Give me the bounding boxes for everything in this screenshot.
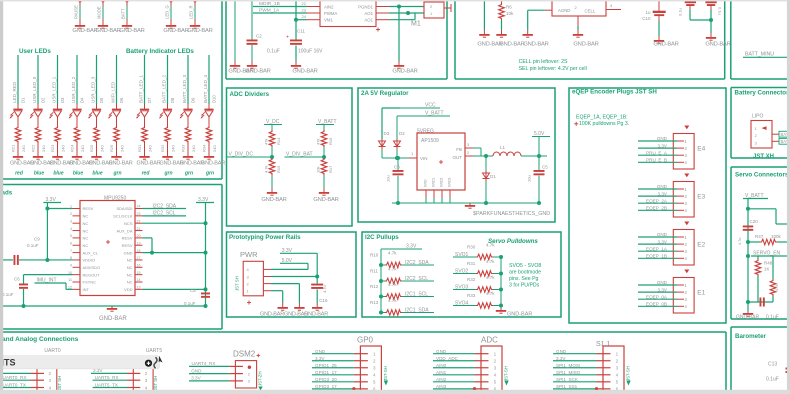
resistor R11 4.7k	[370, 267, 402, 284]
svg-text:C20: C20	[750, 219, 759, 224]
svg-text:I2C2_SCL: I2C2_SCL	[405, 276, 428, 282]
svg-text:EQEP_2A: EQEP_2A	[646, 198, 668, 203]
resistor R12 4.7k	[370, 282, 402, 299]
svg-text:21: 21	[137, 227, 141, 231]
svg-text:3.3V: 3.3V	[191, 376, 201, 381]
resistor R33 240	[181, 126, 197, 152]
svg-text:R11: R11	[370, 269, 378, 274]
svg-text:SDA/SDI: SDA/SDI	[116, 206, 132, 211]
svg-text:FSYNC: FSYNC	[83, 280, 97, 285]
resistor R25 240	[89, 126, 105, 152]
pin stub UART0 2	[31, 372, 45, 374]
svg-text:GPIO3_20: GPIO3_20	[315, 377, 337, 382]
net label I2C1_SCL	[402, 296, 434, 298]
section frame Motor Driver	[225, 0, 227, 79]
svg-text:GND-BAR: GND-BAR	[187, 28, 212, 34]
svg-text:240: 240	[41, 145, 46, 152]
LED D5	[88, 109, 101, 118]
svg-text:5VREG: 5VREG	[417, 129, 434, 135]
svg-text:E2: E2	[697, 242, 705, 249]
overlay cursor	[159, 356, 163, 363]
svg-text:D7: D7	[147, 97, 152, 103]
pin stub ADC 3	[475, 367, 489, 369]
wire LED to resistor R22	[37, 117, 39, 126]
svg-text:FB: FB	[456, 147, 462, 152]
resistor R22 240	[31, 126, 47, 152]
svg-text:D8: D8	[170, 97, 175, 103]
svg-text:grn: grn	[184, 170, 193, 176]
pin stub LIPO 2	[772, 133, 779, 135]
wire pin1 to ground	[271, 290, 283, 292]
svg-text:0.1u: 0.1u	[718, 7, 723, 15]
svg-text:JST-SH: JST-SH	[626, 366, 631, 381]
IMU pin 7 AUX_CL	[70, 249, 99, 256]
svg-text:SPI1_SS1: SPI1_SS1	[556, 384, 578, 389]
pin stubs AP1509 bottom	[425, 190, 427, 198]
wire LED to resistor R31	[144, 117, 146, 126]
pin stub GP0 6	[354, 388, 368, 390]
svg-text:NC: NC	[127, 265, 133, 270]
wire joining C14 C15	[689, 10, 691, 21]
svg-text:SEL pin leftover: 4.2V per cel: SEL pin leftover: 4.2V per cell	[519, 66, 587, 72]
svg-text:CELL: CELL	[585, 9, 596, 14]
svg-text:GND: GND	[436, 349, 447, 354]
LED column WIFI_LED	[111, 55, 125, 109]
svg-text:I2C1_SCL: I2C1_SCL	[405, 292, 428, 298]
svg-text:EQEP_0B: EQEP_0B	[646, 302, 667, 307]
svg-text:D9: D9	[191, 97, 196, 103]
wire pin3 to 3.3V	[271, 276, 317, 278]
svg-text:UART5: UART5	[146, 348, 163, 354]
svg-text:4.7k: 4.7k	[388, 298, 397, 303]
ground GND-BAR USR_LED_0	[30, 152, 54, 167]
svg-text:R23: R23	[50, 144, 55, 152]
net label 3.3V E4	[638, 143, 684, 148]
svg-text:2: 2	[70, 212, 72, 216]
svg-text:22: 22	[137, 219, 141, 223]
svg-text:19: 19	[137, 241, 141, 245]
ground GND-BAR C16	[304, 303, 328, 318]
pin stub ADC 4	[475, 374, 489, 376]
connector UART5 JST	[133, 358, 153, 394]
IMU IC MPU9250	[80, 196, 135, 296]
section frame IMU	[0, 184, 222, 186]
net label GND DSM2	[189, 373, 229, 375]
net flag BAT+	[779, 131, 790, 137]
svg-text:M1: M1	[411, 21, 421, 28]
connector DSM2 JST ZH	[235, 361, 256, 388]
section frame Barometer	[731, 326, 790, 328]
wire resistor R33 to ground	[187, 143, 189, 152]
wire AO1 to M1	[389, 12, 424, 14]
svg-text:UART4_RX: UART4_RX	[192, 361, 216, 366]
capacitor C2 0.1uF	[247, 34, 280, 55]
svg-text:GND: GND	[424, 179, 428, 187]
wire LED to resistor R23	[57, 117, 59, 126]
svg-text:C11: C11	[297, 29, 305, 34]
svg-text:GND-BAR: GND-BAR	[201, 161, 225, 167]
svg-text:47k: 47k	[264, 139, 269, 145]
svg-text:3.3V: 3.3V	[556, 356, 566, 361]
capacitor C10 1u	[642, 0, 665, 36]
svg-text:grn: grn	[205, 170, 214, 176]
wire resistor R21 to ground	[17, 143, 19, 152]
diode D1	[483, 156, 497, 203]
ground GND-BAR BATT_LED_3	[180, 152, 204, 167]
LED D2	[30, 109, 43, 118]
net label EQEP_2B E3	[638, 206, 684, 211]
section frame User/Battery LEDs	[221, 0, 223, 179]
wire V_DC to R14	[271, 125, 273, 131]
net label 3.3V S1.1	[553, 360, 597, 362]
net label EQEP_2A E3	[638, 198, 684, 203]
svg-text:GND-BAR: GND-BAR	[523, 42, 548, 48]
svg-text:0.1uF: 0.1uF	[766, 315, 779, 321]
ground GND-BAR AGND	[573, 30, 599, 48]
svg-text:are bootmode: are bootmode	[509, 270, 541, 276]
section frame 2A 5V Regulator	[358, 88, 555, 222]
svg-text:13: 13	[137, 286, 141, 290]
svg-text:UART0_RX: UART0_RX	[3, 375, 27, 380]
pin stubs motor driver left	[307, 6, 320, 8]
net label I2C1_SDA	[402, 312, 434, 314]
svg-text:Servo Pulldowns: Servo Pulldowns	[488, 238, 538, 245]
IMU pin 11 FSYNC	[68, 278, 96, 285]
ground GND-BAR M1	[392, 61, 417, 75]
resistor R30 4.7k	[467, 243, 495, 260]
wire servo branch right	[748, 208, 776, 210]
svg-text:JST-ZH: JST-ZH	[258, 371, 263, 386]
net label I2C2_SCL	[402, 280, 434, 282]
svg-text:blue: blue	[53, 170, 63, 176]
svg-text:4.7k: 4.7k	[486, 275, 495, 280]
IMU pin 18 GND	[124, 249, 143, 256]
svg-text:D3: D3	[60, 97, 65, 103]
net label UART0_TX	[1, 387, 31, 389]
svg-text:GND-BAR: GND-BAR	[260, 312, 284, 318]
wire 3.3V left rail	[46, 203, 48, 260]
wire resistor R23 to ground	[57, 143, 59, 152]
capacitor C14	[678, 0, 697, 16]
svg-text:5: 5	[70, 234, 72, 238]
net label 3.3V E2	[638, 239, 684, 244]
pushbutton net stub BATT	[121, 0, 129, 21]
ground GND-BAR under BATT	[119, 21, 144, 34]
svg-text:100k: 100k	[771, 234, 782, 239]
connector E4	[673, 134, 705, 170]
svg-text:GND-BAR: GND-BAR	[95, 28, 120, 34]
ground GND-BAR C10	[653, 36, 678, 47]
pushbutton net stub LED_G	[165, 0, 173, 21]
svg-text:GND-BAR: GND-BAR	[119, 28, 144, 34]
pin stub UART0 3	[31, 379, 45, 381]
section frame eQEP Encoder Plugs	[569, 88, 726, 323]
resistor R13 4.7k	[370, 298, 402, 315]
svg-text:4.7k: 4.7k	[388, 251, 397, 256]
connector S1.1 JST SH	[603, 346, 624, 392]
LED column USR_LED_1	[52, 55, 66, 109]
overlay caption bar	[0, 356, 160, 369]
svg-text:4: 4	[70, 227, 72, 231]
connector UART0 JST	[37, 358, 57, 394]
svg-text:PGND1: PGND1	[358, 5, 373, 10]
svg-text:1K: 1K	[764, 267, 770, 272]
IMU pin 14 NC	[127, 278, 143, 285]
svg-text:UART5_RX: UART5_RX	[95, 375, 119, 380]
wire PGND1 to M1	[389, 6, 424, 8]
svg-text:GND: GND	[315, 349, 326, 354]
resistor R48 1K	[755, 256, 773, 302]
polarity mark E1	[684, 270, 689, 274]
LED column LED_RED	[12, 55, 26, 109]
svg-text:NC: NC	[127, 258, 133, 263]
svg-text:100uF 16V: 100uF 16V	[298, 49, 323, 55]
svg-text:RESV: RESV	[83, 206, 94, 211]
svg-text:AD0/SDO: AD0/SDO	[83, 265, 101, 270]
LED column USR_LED_2	[71, 55, 85, 109]
wire NCS pin to rail	[143, 222, 206, 224]
ground GND-BAR servo section	[743, 311, 753, 316]
net label GND ADC	[433, 353, 475, 355]
pin stub GP0 5	[354, 381, 368, 383]
capacitor C21	[760, 298, 762, 307]
svg-text:C2: C2	[256, 34, 262, 39]
svg-text:PAUSE: PAUSE	[74, 5, 79, 19]
svg-text:I2C1_SDA: I2C1_SDA	[405, 308, 429, 314]
svg-text:SPI1_SCK: SPI1_SCK	[556, 377, 579, 382]
svg-text:20: 20	[137, 234, 141, 238]
svg-text:22: 22	[302, 1, 307, 6]
svg-text:EQEP_2B: EQEP_2B	[646, 206, 667, 211]
ground GND-BAR LED_RED	[10, 152, 34, 167]
svg-text:BATT: BATT	[121, 8, 126, 19]
net label SPI1_SCK S1.1	[553, 381, 597, 383]
wire UART0 row1	[1, 372, 31, 374]
svg-text:grn: grn	[163, 170, 172, 176]
ground GND-BAR WIFI_LED	[109, 152, 133, 167]
svg-text:240: 240	[80, 145, 85, 152]
pin stub S1.1 6	[597, 388, 611, 390]
svg-text:GND-BAR: GND-BAR	[499, 42, 524, 48]
resistor R21 240	[11, 126, 27, 152]
section frame ADC Dividers	[227, 88, 353, 226]
svg-text:JST XH: JST XH	[753, 154, 774, 160]
svg-text:3.3V: 3.3V	[315, 356, 325, 361]
svg-text:C9: C9	[34, 237, 40, 242]
svg-text:15: 15	[137, 271, 141, 275]
LED column BATT_LED_4	[203, 55, 217, 109]
net label I2C2_SDA IMU	[143, 208, 187, 210]
svg-text:USR_LED_3: USR_LED_3	[91, 76, 96, 103]
pin stub LIPO 3	[772, 140, 779, 142]
svg-text:4.7k: 4.7k	[486, 259, 495, 264]
pin stub ADC 5	[475, 381, 489, 383]
net label SPI1_MOSI S1.1	[553, 367, 597, 369]
LED D10	[201, 109, 214, 118]
svg-text:GND-BAR: GND-BAR	[705, 41, 730, 47]
wire IMU_INT to pin12	[65, 283, 67, 289]
svg-text:GND1: GND1	[432, 177, 436, 187]
section frame Battery Connector	[731, 87, 790, 89]
svg-text:16: 16	[137, 264, 141, 268]
pin stub GP0 3	[354, 367, 368, 369]
svg-text:WIFI_LED: WIFI_LED	[111, 81, 116, 103]
page edge left	[0, 0, 3, 394]
svg-text:R14: R14	[276, 137, 281, 145]
svg-text:D1: D1	[21, 97, 26, 103]
svg-text:0.1uF: 0.1uF	[27, 243, 39, 248]
svg-text:4.7u: 4.7u	[738, 238, 742, 245]
svg-text:I2C Pullups: I2C Pullups	[365, 234, 399, 241]
wire LED to resistor R32	[167, 117, 169, 126]
wire LED to resistor R26	[116, 117, 118, 126]
capacitor C13 0.1uF	[766, 362, 790, 383]
svg-text:E4: E4	[697, 146, 705, 153]
svg-text:4.7k: 4.7k	[486, 243, 495, 248]
pin stub CELL right	[606, 9, 621, 11]
IMU pin 17 NC	[127, 256, 143, 263]
resistor R6 10k	[499, 0, 514, 20]
svg-text:I2C2_SCL: I2C2_SCL	[153, 211, 176, 217]
IMU pin 21 AUX_DA	[116, 227, 142, 234]
svg-text:USR_LED_2: USR_LED_2	[71, 76, 76, 103]
page edge right	[787, 0, 790, 394]
net label AIN1 ADC	[433, 374, 475, 376]
svg-text:240: 240	[212, 145, 217, 152]
fuel gauge IC U3 (cut off)	[552, 0, 613, 16]
svg-text:GND-BAR: GND-BAR	[313, 197, 338, 203]
svg-text:23: 23	[137, 212, 141, 216]
svg-text:7: 7	[70, 249, 72, 253]
ground GND-BAR BATT_LED_4	[201, 152, 225, 167]
svg-text:R34: R34	[202, 144, 207, 152]
junction GP0 pin6	[352, 387, 355, 390]
LED D7	[136, 109, 149, 118]
svg-text:EQEP_1B: EQEP_1B	[646, 254, 667, 259]
pin stub GP0 2	[354, 360, 368, 362]
capacitor C16 4.7u	[311, 284, 328, 303]
wire 3.3V pullup rail	[404, 248, 422, 250]
resistor R31 240	[137, 126, 153, 152]
svg-text:C13: C13	[768, 362, 777, 368]
svg-text:GND-BAR: GND-BAR	[163, 28, 188, 34]
svg-text:GND: GND	[657, 280, 668, 285]
IMU pin 22 NCS	[124, 219, 142, 226]
svg-text:C3: C3	[394, 165, 400, 170]
svg-text:C5: C5	[542, 165, 548, 170]
IMU pin 6 NC	[70, 241, 88, 248]
svg-text:C10: C10	[642, 16, 651, 21]
svg-text:JST-SH: JST-SH	[504, 366, 509, 381]
wire servo rail	[747, 199, 749, 312]
IMU pin 13 VDD	[124, 286, 142, 293]
svg-text:GND: GND	[657, 232, 668, 237]
wire V_BATT to R16	[323, 125, 325, 131]
IMU pin 23 SCL/SCLK	[113, 212, 142, 219]
net label GPIO1_25 GP0	[312, 367, 354, 369]
inductor L1	[493, 145, 521, 156]
svg-text:3.3V: 3.3V	[658, 143, 668, 148]
motor driver IC U2 (cut off)	[320, 0, 376, 27]
svg-text:AIN0: AIN0	[436, 363, 447, 368]
ground GND-BAR BATT_LED_2	[160, 152, 184, 167]
ground GND-BAR V_DIV_BAT	[313, 188, 338, 203]
ground GND-BAR under MODE	[95, 21, 120, 34]
polarity mark E3	[684, 174, 689, 178]
svg-text:I2C2_SDA: I2C2_SDA	[153, 203, 177, 209]
connector PWR JST SH	[235, 261, 264, 296]
net label GPIO3_20 GP0	[312, 381, 354, 383]
net label GND E2	[638, 232, 684, 237]
svg-text:0.1uF: 0.1uF	[766, 377, 779, 383]
pin stub AGND down	[577, 16, 579, 26]
IMU pin 20 RESV	[122, 234, 143, 241]
section frame Prototyping Power Rails	[227, 232, 357, 317]
svg-text:PRU_E_A: PRU_E_A	[646, 150, 668, 155]
svg-text:MODE: MODE	[97, 6, 102, 19]
ground GND-BAR CELL	[523, 30, 549, 48]
net label EQEP_1A E2	[638, 246, 684, 251]
svg-text:GND-BAR: GND-BAR	[292, 69, 317, 75]
resistor R32 4.7k	[467, 275, 495, 292]
svg-text:17: 17	[137, 256, 141, 260]
wire battery rail 1	[483, 0, 485, 30]
svg-text:R10: R10	[370, 253, 379, 258]
svg-text:1u: 1u	[645, 10, 651, 15]
svg-text:NCS: NCS	[124, 221, 133, 226]
svg-text:24: 24	[302, 14, 307, 19]
svg-text:VIN: VIN	[420, 156, 428, 161]
pushbutton net stub PAUSE	[74, 0, 82, 21]
svg-text:240: 240	[171, 145, 176, 152]
wire LED to resistor R24	[76, 117, 78, 126]
svg-text:+: +	[286, 35, 289, 41]
svg-text:EQEP_0A: EQEP_0A	[646, 294, 668, 299]
ground GND-BAR under PAUSE	[72, 21, 97, 34]
svg-text:GND-BAR: GND-BAR	[304, 312, 328, 318]
svg-text:3.3V: 3.3V	[658, 239, 668, 244]
connector GP0 JST SH	[360, 346, 381, 392]
wire resistor R24 to ground	[76, 143, 78, 152]
resistor R15 4.7k	[264, 158, 282, 175]
svg-text:R17: R17	[328, 165, 333, 173]
pin stub VIN	[409, 157, 417, 159]
svg-text:blue: blue	[92, 170, 102, 176]
net label VDD_ADC ADC	[433, 360, 475, 362]
pin stub DSM2 2	[229, 373, 243, 375]
svg-text:240: 240	[120, 145, 125, 152]
wire resistor R22 to ground	[37, 143, 39, 152]
ground GND-BAR under LED_G	[163, 21, 188, 34]
connector E2	[673, 230, 705, 266]
net label SPI1_MISO S1.1	[553, 374, 597, 376]
pin stub UART0 4	[31, 387, 45, 389]
resistor R23 240	[50, 126, 66, 152]
svg-text:2A 5V Regulator: 2A 5V Regulator	[361, 90, 409, 97]
svg-text:3 for PU/PDs: 3 for PU/PDs	[509, 283, 540, 289]
net label UART5_TX	[93, 387, 127, 389]
svg-text:R15: R15	[276, 165, 281, 173]
section frame GPIO and Analog Connections	[0, 331, 726, 333]
resistor R47 100k	[748, 234, 790, 245]
IMU pin 16 NC	[127, 264, 143, 271]
IMU pin 12 INT	[68, 286, 90, 293]
resistor R26 240	[109, 126, 125, 152]
wire IMU ground rail	[0, 305, 206, 307]
net label AIN0 ADC	[433, 367, 475, 369]
net label GND E4	[638, 136, 684, 141]
ground GND-BAR rail1	[477, 30, 502, 48]
